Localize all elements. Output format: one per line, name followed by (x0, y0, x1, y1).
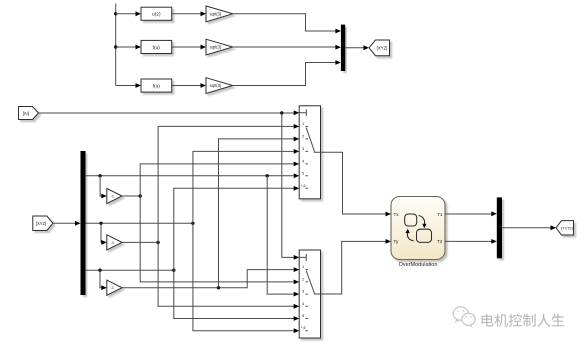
svg-text:1: 1 (302, 265, 304, 269)
node X branch to gain (98, 174, 101, 177)
svg-text:sqrt(3): sqrt(3) (210, 11, 222, 16)
multiport switch U1 (299, 106, 320, 199)
goto tag XYZ (369, 40, 390, 56)
Fcn block f(u) 3 (141, 79, 172, 92)
wire Fcn2 to Gain2 (172, 46, 202, 48)
svg-text:-1: -1 (111, 194, 114, 199)
wire chart T2 to Mux2 (445, 240, 492, 242)
wire XYZ to Demux (53, 222, 76, 224)
U2 ctrl marker (299, 254, 306, 261)
wire N to upper switch ctrl (39, 112, 295, 114)
svg-text:[XYZ]: [XYZ] (377, 45, 388, 50)
node Y branch to gain (99, 222, 102, 225)
wire Y vertical down to lower p6 (193, 223, 295, 330)
chart state box 2 (417, 229, 432, 242)
svg-text:4: 4 (302, 159, 304, 163)
svg-text:-1: -1 (111, 285, 114, 290)
node -Y junction (156, 241, 159, 244)
svg-text:Tx: Tx (394, 212, 400, 217)
wire U2 out to chart Ty (321, 241, 387, 294)
wire Z vertical down to lower p5 (174, 270, 295, 318)
watermark text dianji kongzhi rensheng (482, 314, 565, 327)
wire Y row from demux (86, 222, 193, 224)
svg-text:*,6: *,6 (301, 184, 306, 188)
wire X row to upper switch p5 (86, 175, 295, 177)
wire X branch down to lower switch p3 (267, 176, 294, 294)
gain sqrt(3) 1 (206, 6, 233, 22)
wire Z row from demux (86, 269, 174, 271)
U1 diagonal (306, 128, 320, 153)
svg-text:5: 5 (302, 314, 304, 318)
multiport switch U2 (299, 250, 320, 338)
svg-text:[XYZ]: [XYZ] (36, 221, 46, 226)
svg-text:OverModulation: OverModulation (399, 262, 438, 268)
wire into Fcn2 (116, 46, 137, 48)
chart transition arrow left (407, 233, 413, 241)
mux Mux1 (341, 25, 345, 71)
node Z branch to gain (98, 269, 101, 272)
watermark icon eyes (457, 310, 472, 317)
wire Z to Gain -1 G3 (100, 270, 102, 288)
svg-text:f(u): f(u) (153, 83, 161, 89)
U1 ctrl marker (299, 109, 306, 116)
svg-text:1: 1 (302, 122, 304, 126)
svg-text:[T1T2]: [T1T2] (561, 226, 572, 231)
svg-text:T1: T1 (437, 212, 443, 217)
wire into Fcn3 (116, 85, 137, 87)
chart transition arrow right (419, 216, 425, 225)
svg-text:2: 2 (302, 134, 304, 138)
node X branch to lower p3 (266, 174, 269, 177)
gain G2 -1 (107, 235, 122, 250)
node Z junction on vertical (172, 269, 175, 272)
watermark wechat icon (453, 307, 475, 328)
gain sqrt(3) 2 (206, 39, 233, 55)
svg-text:sqrt(3): sqrt(3) (210, 45, 222, 50)
svg-text:sqrt(3): sqrt(3) (210, 83, 222, 88)
svg-text:f(u): f(u) (153, 45, 161, 51)
gain G3 -1 (107, 280, 122, 295)
wire Mux2 to Goto T1T2 (502, 227, 551, 229)
wire N branch to lower switch ctrl (282, 113, 295, 257)
wire top source vertical (115, 4, 117, 86)
wire U1 out to chart Tx (321, 152, 387, 214)
U2 diagonal (306, 271, 320, 294)
wire -X vertical down to lower p2 (140, 196, 294, 282)
wire G2 out to vertical (122, 241, 158, 243)
wire -Y vertical up to upper p1 (158, 126, 294, 242)
svg-text:u(2): u(2) (152, 12, 161, 18)
wire Fcn3 to Gain3 (172, 85, 202, 87)
wire -Y vertical down to lower p4 (158, 242, 294, 306)
node N branch dot (280, 111, 283, 114)
svg-text:T2: T2 (437, 239, 443, 244)
svg-text:4: 4 (302, 302, 304, 306)
wire Y to Gain -1 G2 (101, 223, 102, 242)
svg-text:*,6: *,6 (301, 326, 306, 330)
svg-text:3: 3 (302, 147, 304, 151)
wire into Fcn1 (116, 13, 137, 15)
svg-text:[N]: [N] (23, 111, 29, 117)
Fcn block f(u) 2 (141, 40, 172, 53)
wire -X vertical up to upper p4 (140, 164, 294, 196)
wire Mux1 to Goto XYZ (345, 47, 364, 49)
wire gain3 to Mux1 (233, 63, 336, 86)
wire gain1 to Mux1 (233, 14, 336, 31)
svg-text:2: 2 (302, 277, 304, 281)
wire G1 out to vertical (122, 195, 140, 197)
U1 port stubs (306, 126, 308, 188)
wire Fcn1 to Gain1 (172, 13, 202, 15)
gain sqrt(3) 3 (206, 78, 233, 94)
from tag XYZ (33, 216, 53, 231)
node -X junction (139, 194, 142, 197)
node Y junction on vertical (191, 222, 194, 225)
wire G3 out to lower p1 (122, 270, 295, 288)
node branch dot row2 (114, 45, 117, 48)
svg-text:3: 3 (302, 290, 304, 294)
wire X to Gain -1 G1 (100, 176, 102, 196)
demux Demux1 (81, 151, 86, 295)
svg-text:Ty: Ty (394, 239, 400, 244)
wire -Z vertical up to upper p2 (219, 139, 295, 288)
U2 port stubs (306, 270, 308, 331)
Fcn block u(2) (141, 7, 172, 20)
goto tag T1T2 (556, 221, 574, 235)
svg-text:5: 5 (302, 171, 304, 175)
chart state box 1 (405, 214, 417, 226)
node -Z junction (217, 286, 220, 289)
from tag N (19, 107, 39, 120)
wire Z vertical up to upper p6 (174, 188, 295, 270)
svg-text:-1: -1 (111, 240, 114, 245)
stateflow chart OverModulation (391, 197, 445, 260)
wire chart T1 to Mux2 (445, 213, 492, 215)
wire Y vertical up to upper p3 (193, 151, 295, 223)
mux Mux2 (497, 197, 502, 258)
wire gain2 to Mux1 (233, 46, 336, 48)
node branch dot row1 (114, 12, 117, 15)
gain G1 -1 (107, 188, 122, 203)
